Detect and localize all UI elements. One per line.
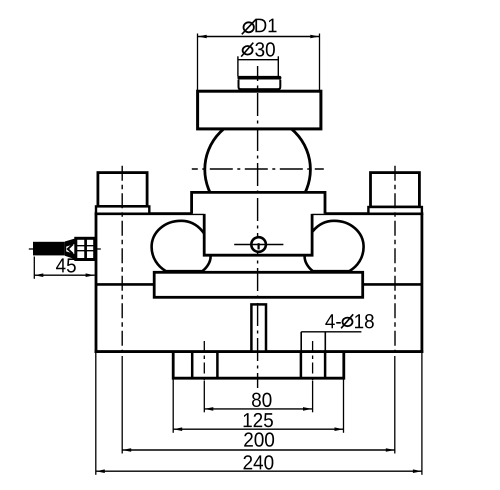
extension line 45 left xyxy=(33,257,35,279)
connector centerline right xyxy=(95,248,101,250)
dimension 240 xyxy=(96,455,422,473)
foot rib line 3 xyxy=(300,352,303,379)
cable taper xyxy=(65,238,76,259)
upper seat stem xyxy=(204,214,312,256)
extension line 125 right xyxy=(343,380,345,433)
cap upper side left xyxy=(237,56,239,76)
lower seat plate xyxy=(154,272,363,297)
left mounting bolt centerline xyxy=(121,166,123,353)
foot rib line 1 xyxy=(191,352,194,379)
dimension line D1 xyxy=(198,35,320,39)
dimension 45 xyxy=(34,258,94,277)
extension line 200 left xyxy=(121,356,123,454)
cap lower cup xyxy=(239,80,281,90)
bolt hole edge left of callout xyxy=(300,332,302,352)
cap upper side right xyxy=(277,56,279,76)
extension line 200 right xyxy=(394,356,396,454)
left roller xyxy=(152,221,211,271)
body top edge right segment xyxy=(312,212,423,215)
bolt hole edge right of callout xyxy=(324,332,326,352)
left bolt collar xyxy=(96,206,149,213)
cable taper inner white xyxy=(66,244,76,255)
right hole centerline xyxy=(312,341,314,381)
cap cup bottom edge xyxy=(239,88,280,90)
foot flange outline xyxy=(173,352,344,379)
dimension line 30 and cap top edge xyxy=(238,59,278,61)
body top edge left segment xyxy=(95,212,205,215)
right mounting bolt centerline xyxy=(394,166,396,353)
left bolt block xyxy=(98,173,147,207)
upper seat head xyxy=(192,192,325,213)
dimension 200 xyxy=(122,432,395,451)
cap collar band xyxy=(239,76,279,80)
cable xyxy=(33,242,65,256)
gland thread line 2 xyxy=(76,250,95,252)
body middle split line left xyxy=(96,283,154,286)
right roller xyxy=(305,221,364,271)
pivot tick xyxy=(258,243,260,249)
left hole extension xyxy=(203,381,205,412)
label 4-phi18 xyxy=(325,314,374,328)
dimension 125 xyxy=(173,413,343,431)
cable gland frame xyxy=(76,238,95,259)
foot rib line 2 xyxy=(216,352,219,379)
left hole centerline xyxy=(203,341,205,381)
right bolt block xyxy=(371,173,420,207)
bottom stud xyxy=(251,304,266,352)
main body xyxy=(96,214,422,352)
extension line 240 right xyxy=(421,352,423,475)
right bolt collar xyxy=(368,207,422,214)
right hole extension xyxy=(312,381,314,412)
gland divider xyxy=(84,238,87,259)
connector centerline left xyxy=(29,248,36,250)
cable taper chevron xyxy=(68,244,73,253)
horizontal centerline of ball xyxy=(192,168,324,170)
gland thread line 1 xyxy=(76,245,95,247)
body bottom edge restroke xyxy=(95,350,424,353)
vertical main centerline xyxy=(257,66,259,388)
extension line D1 left xyxy=(197,34,199,92)
ball (load button sphere) xyxy=(205,117,311,223)
extension line D1 right xyxy=(319,34,321,92)
top plate block xyxy=(198,91,321,129)
foot rib line 4 xyxy=(324,352,327,379)
center pivot circle xyxy=(251,237,266,252)
body middle split line right xyxy=(363,283,422,286)
extension line 125 left xyxy=(172,380,174,433)
dimension 80 xyxy=(204,393,312,411)
pivot horizontal line xyxy=(234,244,283,246)
label phi-D1 xyxy=(242,19,277,35)
extension line 240 left xyxy=(95,352,97,475)
callout shelf line xyxy=(301,331,361,333)
label phi-30 xyxy=(241,42,275,56)
